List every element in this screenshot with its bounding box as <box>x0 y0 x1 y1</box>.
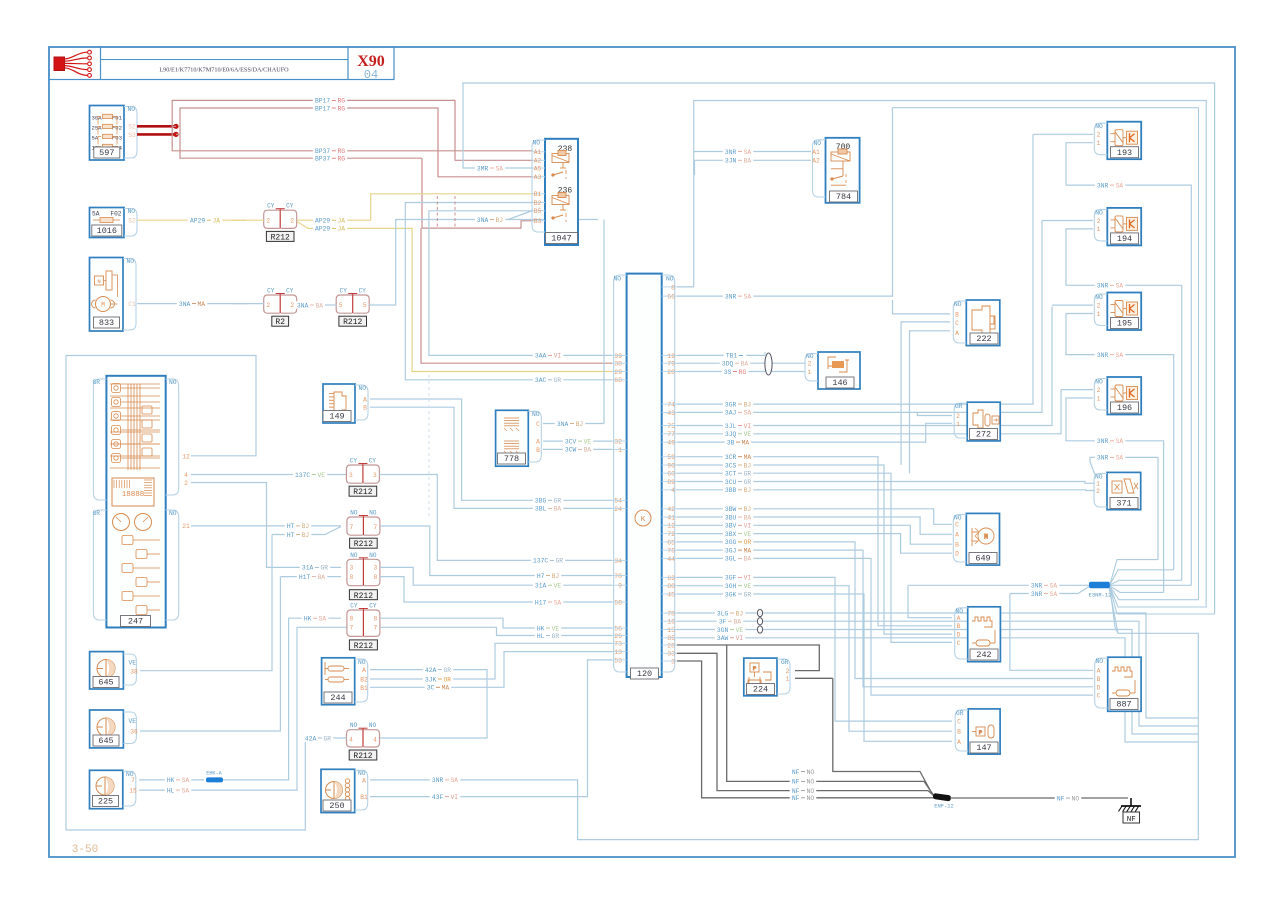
label 649 <box>969 553 997 564</box>
svg-text:B1: B1 <box>360 794 368 801</box>
label 3GR-BJ <box>723 400 754 407</box>
svg-text:NO: NO <box>350 722 358 729</box>
label AP29-JA out1 <box>313 217 347 224</box>
svg-text:3CU: 3CU <box>725 479 737 486</box>
wire 3CV-VE to ECU-32 <box>543 440 612 442</box>
label 242 <box>970 649 998 660</box>
label H17-SA <box>533 598 564 605</box>
svg-text:1: 1 <box>1097 140 1101 147</box>
svg-text:25A: 25A <box>92 125 103 132</box>
wire 597-S3 supply <box>137 133 176 136</box>
svg-text:A5: A5 <box>534 165 542 172</box>
label 3NR-SA inj 194 <box>1095 282 1126 289</box>
svg-text:NO: NO <box>613 276 621 283</box>
svg-text:BA: BA <box>318 574 326 581</box>
wire injector 195 pin2 <box>1052 304 1093 306</box>
label 222 <box>970 333 998 344</box>
svg-text:3GH: 3GH <box>725 583 737 590</box>
svg-text:1016: 1016 <box>97 226 117 236</box>
wire 3GJ-MA to 887-D <box>677 550 1093 687</box>
label 3CT-GR <box>723 470 754 477</box>
svg-text:3GL: 3GL <box>725 556 737 563</box>
svg-text:CY: CY <box>369 458 377 465</box>
wire 3NR-SA ECU-66 riser <box>677 108 893 296</box>
label 3BL-BA <box>533 505 564 512</box>
label 3CU-GR <box>723 478 754 485</box>
svg-text:NF: NF <box>1057 795 1065 802</box>
component 224 <box>744 658 777 696</box>
label 3CW-BA <box>563 446 594 453</box>
svg-text:NF: NF <box>792 769 800 776</box>
svg-text:N: N <box>97 278 100 285</box>
label 3JQ-VE <box>723 430 754 437</box>
svg-text:MA: MA <box>742 439 750 446</box>
svg-text:12: 12 <box>667 523 675 530</box>
svg-text:2: 2 <box>290 217 294 224</box>
svg-text:CY: CY <box>286 288 294 295</box>
component 778 <box>496 410 529 466</box>
wire 3NR-SA splice to 242-A <box>908 584 1089 586</box>
svg-text:B1: B1 <box>360 685 368 692</box>
svg-text:42A: 42A <box>305 735 317 742</box>
svg-text:3BW: 3BW <box>725 506 737 513</box>
svg-text:72: 72 <box>667 531 675 538</box>
svg-text:BJ: BJ <box>552 573 560 580</box>
label 3C-MA <box>425 684 452 691</box>
svg-text:NF: NF <box>792 788 800 795</box>
label 3BG-GR <box>533 497 564 504</box>
label BP37-RG <box>313 147 347 154</box>
label NF-NO 3 <box>790 787 817 794</box>
label 1016 <box>92 225 122 236</box>
wire HK-SA riser <box>223 618 341 780</box>
label 3CV-VE <box>563 437 594 444</box>
svg-text:63: 63 <box>667 575 675 582</box>
svg-text:B: B <box>955 311 959 318</box>
svg-text:BP37: BP37 <box>315 156 330 163</box>
label 3GF-VI <box>723 574 754 581</box>
label NF-NO 5 <box>1055 794 1082 801</box>
label 3GK-GR <box>723 590 754 597</box>
svg-text:3BG: 3BG <box>535 498 547 505</box>
svg-text:NF: NF <box>792 779 800 786</box>
component 1016 fuse <box>90 208 125 238</box>
wire 42A-GR loop 247-12 to R212 <box>66 356 330 831</box>
svg-text:76: 76 <box>667 548 675 555</box>
wire 137C-GR to ECU-34 <box>379 475 612 561</box>
svg-text:3BB: 3BB <box>725 487 737 494</box>
svg-text:250: 250 <box>329 801 344 811</box>
wire 42A-GR from 244-A <box>370 670 487 738</box>
wire 3NR-SA to 222-B <box>893 300 951 314</box>
connector R2 <box>264 295 280 313</box>
label HK-SA <box>165 776 192 783</box>
svg-text:C: C <box>955 320 959 327</box>
svg-text:GR: GR <box>444 667 452 674</box>
svg-text:36: 36 <box>130 729 138 736</box>
wire 3NR-SA 371 <box>1090 457 1158 559</box>
svg-text:54: 54 <box>614 498 622 505</box>
junction dot S2 <box>173 124 178 129</box>
svg-text:645: 645 <box>98 678 113 688</box>
svg-text:BP17: BP17 <box>315 98 330 105</box>
pin A3 <box>533 176 545 178</box>
svg-text:NO: NO <box>807 795 815 802</box>
wire 3NR-SA injector 195 pin1 <box>1066 314 1174 570</box>
wire nest top y108 <box>893 107 1199 109</box>
svg-text:NO: NO <box>1095 294 1103 301</box>
harness connector icon <box>54 57 65 71</box>
wire 3NA-BJ riser <box>369 220 598 306</box>
wire H17-SA to ECU-58 <box>380 577 612 602</box>
svg-text:4: 4 <box>373 736 377 743</box>
svg-text:C: C <box>1097 693 1101 700</box>
svg-text:3BV: 3BV <box>725 523 737 530</box>
svg-text:3MR: 3MR <box>477 165 489 172</box>
svg-text:OR: OR <box>744 539 752 546</box>
wire 3GK-GR to 147-A <box>677 594 952 741</box>
svg-text:20: 20 <box>667 369 675 376</box>
wire 3C-MA to ECU-13 <box>370 652 612 688</box>
svg-text:3GR: 3GR <box>725 401 737 408</box>
wire AP29-JA <box>137 219 246 221</box>
label 137C-GR <box>531 557 565 564</box>
svg-text:VI: VI <box>451 794 459 801</box>
svg-text:GR: GR <box>92 379 100 386</box>
svg-text:9: 9 <box>618 583 622 590</box>
svg-text:3JK: 3JK <box>425 676 437 683</box>
wire BP37 to ECU-38 <box>421 228 612 363</box>
svg-text:3CW: 3CW <box>565 447 577 454</box>
svg-text:MA: MA <box>744 454 752 461</box>
label 3MR-SA <box>475 164 506 171</box>
label 597 <box>94 147 120 158</box>
svg-text:3GK: 3GK <box>725 591 737 598</box>
component 193 injector <box>1107 122 1141 160</box>
svg-text:A: A <box>955 532 959 539</box>
svg-text:2: 2 <box>956 413 960 420</box>
svg-text:GR: GR <box>324 735 332 742</box>
wire crossing dash 3 <box>428 375 430 516</box>
label 3NR-SA 371 <box>1095 454 1126 461</box>
svg-text:C1: C1 <box>128 301 136 308</box>
component 371 <box>1107 472 1141 509</box>
wire 3AJ-SA to 194-2 <box>677 221 1042 413</box>
svg-text:R212: R212 <box>353 752 372 761</box>
connector R212 HK/HL <box>347 610 363 636</box>
label 3GJ-MA <box>723 546 754 553</box>
wire crossing dash 1 <box>436 196 438 228</box>
label 1047 <box>546 233 578 244</box>
svg-text:3NR: 3NR <box>1031 583 1043 590</box>
svg-text:3AA: 3AA <box>535 353 547 360</box>
svg-text:MA: MA <box>442 685 450 692</box>
wire 3NA-BA <box>297 304 320 306</box>
svg-text:89: 89 <box>667 479 675 486</box>
label 3NR-SA inj 196 <box>1095 437 1126 444</box>
svg-text:3NR: 3NR <box>725 149 737 156</box>
svg-text:JA: JA <box>338 218 346 225</box>
pin A2 <box>533 159 545 161</box>
motor M <box>96 297 111 312</box>
wire BP37-RG to 1047-A1 <box>172 126 533 151</box>
svg-text:1: 1 <box>1097 226 1101 233</box>
wire 3BL-BA to ECU-24 <box>370 407 612 508</box>
svg-text:7: 7 <box>350 524 354 531</box>
svg-text:A: A <box>363 396 367 403</box>
svg-text:3BX: 3BX <box>725 531 737 538</box>
pin A5 <box>533 167 545 169</box>
svg-text:HL: HL <box>167 787 175 794</box>
svg-text:3GF: 3GF <box>725 575 737 582</box>
label HK-SA 2 <box>302 615 329 622</box>
wire 3BW-BJ to 649-C <box>677 509 952 525</box>
svg-text:70: 70 <box>614 573 622 580</box>
svg-text:194: 194 <box>1117 234 1132 244</box>
svg-text:68: 68 <box>614 377 622 384</box>
247 right NO brackets <box>166 379 179 495</box>
label 3NA-BA <box>295 301 326 308</box>
svg-text:29: 29 <box>614 369 622 376</box>
svg-text:GR: GR <box>956 710 964 717</box>
svg-text:28: 28 <box>667 642 675 649</box>
wire 3LG-BJ <box>677 613 1198 718</box>
svg-text:3NR: 3NR <box>1097 283 1109 290</box>
svg-text:B2: B2 <box>360 677 368 684</box>
label H1T-BA <box>297 573 328 580</box>
svg-text:3LG: 3LG <box>717 610 729 617</box>
svg-text:3S: 3S <box>724 369 732 376</box>
wire AP29-JA to ECU-29 <box>297 222 612 372</box>
svg-text:NO: NO <box>532 411 540 418</box>
svg-text:NO: NO <box>358 659 366 666</box>
svg-text:42A: 42A <box>425 667 437 674</box>
splice E3NR-1 <box>1089 582 1110 589</box>
wire 3JL-VI to 195-2 <box>677 307 1052 426</box>
ground symbol NF <box>1130 798 1132 806</box>
svg-text:7: 7 <box>350 625 354 632</box>
label 31A-GR <box>300 564 331 571</box>
svg-text:1: 1 <box>1097 395 1101 402</box>
svg-text:5: 5 <box>363 302 367 309</box>
wire splice to big loop <box>1110 588 1118 633</box>
wire 3NR-SA injector 196 pin1 <box>1066 398 1164 592</box>
label 3F-BA <box>717 618 744 625</box>
svg-text:137C: 137C <box>533 558 548 565</box>
svg-text:E3NR-12: E3NR-12 <box>1089 593 1112 599</box>
wire 3GL-BA to 887-C <box>677 558 1093 695</box>
svg-text:42: 42 <box>667 506 675 513</box>
svg-text:3AW: 3AW <box>717 635 729 642</box>
svg-text:3AC: 3AC <box>535 377 547 384</box>
svg-text:H17: H17 <box>535 599 547 606</box>
svg-text:24: 24 <box>614 506 622 513</box>
svg-text:B: B <box>955 542 959 549</box>
inline connector rings <box>757 609 762 616</box>
label 645-1 <box>93 677 119 688</box>
svg-text:BJ: BJ <box>744 401 752 408</box>
svg-text:225: 225 <box>98 797 113 807</box>
label 3AA-VI <box>533 352 564 359</box>
label 146 <box>826 377 854 388</box>
svg-text:SA: SA <box>1116 182 1124 189</box>
svg-text:CY: CY <box>286 203 294 210</box>
svg-text:66: 66 <box>667 294 675 301</box>
svg-text:NO: NO <box>532 140 540 147</box>
svg-text:VI: VI <box>744 523 752 530</box>
label 3AJ-SA <box>723 409 754 416</box>
svg-text:SA: SA <box>319 616 327 623</box>
label AP29-JA <box>188 217 222 224</box>
svg-text:77: 77 <box>667 431 675 438</box>
svg-text:B: B <box>363 405 367 412</box>
svg-text:EHK-A: EHK-A <box>206 771 222 777</box>
svg-text:D: D <box>955 551 959 558</box>
svg-text:3NR: 3NR <box>432 777 444 784</box>
svg-text:2: 2 <box>184 480 188 487</box>
247 left GR brackets <box>93 379 106 500</box>
component 195 injector <box>1107 293 1141 331</box>
wire TB1 <box>677 354 765 356</box>
svg-text:5: 5 <box>339 302 343 309</box>
svg-text:34: 34 <box>614 558 622 565</box>
wire 3CT-GR to 242-C <box>677 473 952 642</box>
svg-text:SA: SA <box>182 777 190 784</box>
svg-text:8: 8 <box>374 574 378 581</box>
label 3BB-BJ <box>723 486 754 493</box>
svg-text:L90/E1/K7710/K7M710/E0/6A/ESS/: L90/E1/K7710/K7M710/E0/6A/ESS/DA/CHAUFO <box>159 67 289 74</box>
label 371 <box>1110 498 1138 509</box>
svg-text:3CS: 3CS <box>725 462 737 469</box>
component 194 injector <box>1107 208 1141 246</box>
svg-text:R2: R2 <box>275 318 285 327</box>
svg-text:272: 272 <box>976 430 991 440</box>
svg-text:645: 645 <box>98 736 113 746</box>
svg-text:RG: RG <box>338 98 346 105</box>
svg-text:39: 39 <box>614 353 622 360</box>
component 649 <box>966 513 999 565</box>
svg-text:NF: NF <box>792 795 800 802</box>
svg-text:3: 3 <box>671 658 675 665</box>
wire 3BX-VE to 649-D <box>677 534 952 554</box>
wire 3NR-SA splice to 887-A <box>1010 587 1089 594</box>
svg-text:778: 778 <box>504 454 519 464</box>
svg-text:33: 33 <box>667 651 675 658</box>
svg-text:5A: 5A <box>92 211 100 218</box>
svg-text:BJ: BJ <box>744 462 752 469</box>
connector R212 3NA <box>336 295 352 313</box>
label 784 <box>830 191 858 202</box>
svg-text:BA: BA <box>584 447 592 454</box>
svg-text:B: B <box>1097 676 1101 683</box>
svg-text:13: 13 <box>614 649 622 656</box>
svg-text:CY: CY <box>267 203 275 210</box>
wire 3NR-SA injector 194 pin1 <box>1066 229 1182 580</box>
K symbol <box>635 510 651 526</box>
svg-text:224: 224 <box>753 685 768 695</box>
wire HL-SA riser <box>139 627 347 790</box>
svg-text:60: 60 <box>667 471 675 478</box>
svg-text:SA: SA <box>451 777 459 784</box>
svg-text:3NR: 3NR <box>1097 438 1109 445</box>
wire 3B-MA to 272-1 <box>677 423 952 442</box>
wire BP37-RG to 1047-B3 <box>422 158 533 228</box>
wire 3GF-VI to 147-C <box>677 577 952 721</box>
svg-text:NO: NO <box>169 379 177 386</box>
svg-text:NO: NO <box>359 385 367 392</box>
component 222 <box>966 300 1000 346</box>
svg-text:NO: NO <box>666 276 674 283</box>
svg-text:TB1: TB1 <box>726 353 738 360</box>
svg-text:JA: JA <box>213 218 221 225</box>
svg-text:R212: R212 <box>354 540 373 549</box>
label 3NR-SA inj 195 <box>1095 351 1126 358</box>
svg-text:M: M <box>101 302 105 309</box>
svg-text:32: 32 <box>614 439 622 446</box>
wire 3DQ-BA to 146-2 <box>677 362 805 364</box>
svg-text:VI: VI <box>554 353 562 360</box>
wire 3AW-VI <box>677 638 1198 742</box>
svg-text:1: 1 <box>1097 311 1101 318</box>
svg-text:4: 4 <box>671 487 675 494</box>
wire 3S-RG to 146-1 <box>677 371 805 373</box>
svg-text:3NR: 3NR <box>1097 182 1109 189</box>
svg-text:49: 49 <box>667 440 675 447</box>
label HT-BJ 2 <box>285 531 312 538</box>
label H7-BJ <box>535 572 562 579</box>
svg-text:C: C <box>536 421 540 428</box>
wire NF-NO to ground <box>950 797 1128 799</box>
label 42A-GR left <box>303 734 334 741</box>
svg-text:P: P <box>753 665 756 672</box>
svg-text:GR: GR <box>552 633 560 640</box>
wire 3NR-SA rail pin8 <box>677 101 1206 603</box>
wire crossing dash 2 <box>454 196 456 228</box>
svg-text:JA: JA <box>338 226 346 233</box>
svg-text:3NA: 3NA <box>477 217 489 224</box>
svg-text:NO: NO <box>358 770 366 777</box>
svg-text:2: 2 <box>1097 302 1101 309</box>
wire AP29-JA to 1047-B1 <box>297 194 533 220</box>
svg-text:HT: HT <box>287 523 295 530</box>
svg-text:S3: S3 <box>128 132 136 139</box>
svg-text:BA: BA <box>554 506 562 513</box>
svg-text:CY: CY <box>359 288 367 295</box>
label 193 <box>1111 147 1139 158</box>
svg-text:38: 38 <box>130 668 138 675</box>
svg-text:120: 120 <box>637 669 652 679</box>
svg-text:371: 371 <box>1116 499 1131 509</box>
wire BP37-RG to riser <box>180 134 422 158</box>
svg-text:79: 79 <box>667 361 675 368</box>
connector R212 42A <box>347 730 363 747</box>
wire 3GR-BJ to 193-2 <box>677 134 1033 404</box>
wire BP17-RG to 1047-A3 <box>176 108 533 177</box>
component 784 relay <box>826 138 860 203</box>
svg-text:MA: MA <box>198 301 206 308</box>
wire to 222-A <box>910 331 951 473</box>
svg-text:247: 247 <box>128 617 143 627</box>
wire 3BV-VI to 649-B <box>677 525 952 544</box>
svg-text:3CT: 3CT <box>725 471 737 478</box>
svg-text:B5: B5 <box>534 208 542 215</box>
wire injector 193 pin2 <box>1033 133 1093 135</box>
junction dot S3 <box>173 132 178 137</box>
svg-text:7: 7 <box>374 524 378 531</box>
label 244 <box>324 692 352 703</box>
svg-text:C: C <box>957 719 961 726</box>
label 147 <box>970 742 998 753</box>
